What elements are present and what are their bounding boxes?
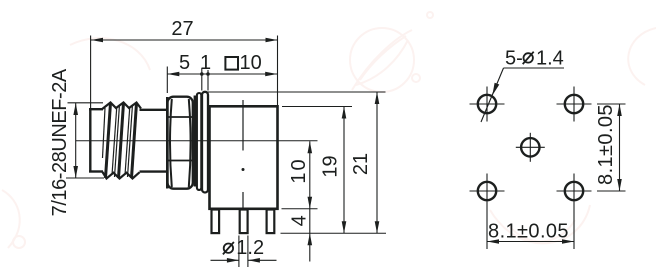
dimension 8.1 +/-0.05 horizontal [487,221,574,244]
thread OD extension line top [68,102,104,104]
dimension diameter 1.2 [211,237,277,263]
hole center [516,133,545,162]
thread crest zigzag bottom [103,172,140,179]
svg-text:8.1±0.05: 8.1±0.05 [488,221,569,243]
extension line 5 [166,67,168,94]
dimension 21 [350,92,379,233]
thread OD extension line bottom [66,177,104,179]
extension lines right 8.1 dim [597,104,626,191]
extension line 1 left [201,68,203,91]
extension line 27 left [90,36,92,109]
dimension 27 [91,18,278,42]
flange washer [202,92,208,193]
spring washer [197,93,201,190]
centerline main axis [76,140,318,142]
svg-text:7/16-28UNEF-2A: 7/16-28UNEF-2A [49,68,71,216]
svg-text:19: 19 [320,155,342,177]
pin center [240,210,248,234]
pin right [267,210,275,234]
svg-text:10: 10 [288,157,310,183]
svg-text:21: 21 [350,153,372,175]
hex nut [167,97,193,189]
barrel collar [89,108,103,172]
svg-text:8.1±0.05: 8.1±0.05 [595,104,617,185]
hole top-left [470,87,505,122]
lock washer [194,96,197,187]
svg-text:5: 5 [179,52,190,74]
extension line right edge (27 and square-10) [277,36,279,106]
svg-text:4: 4 [289,215,311,226]
hole bottom-right [557,174,592,250]
extension line 1 right [207,70,209,91]
extension lines pin diameter [239,236,248,268]
svg-text:27: 27 [171,18,193,40]
dimension 7/16-28UNEF-2A thread diameter [49,68,78,216]
thread crest zigzag top [103,103,142,109]
svg-text:1.2: 1.2 [236,237,264,259]
dimension chain 5 / 1 / square-10 [167,52,277,76]
extension line pin bottom [281,232,387,234]
plain barrel section [140,110,168,172]
svg-text:1: 1 [200,52,211,74]
extension line body bottom [282,208,318,210]
thread flank lines [103,103,137,178]
dimension 8.1 +/-0.05 vertical [595,104,622,191]
hole bottom-left [470,174,505,250]
svg-text:10: 10 [240,52,262,74]
svg-text:1.4: 1.4 [536,48,564,70]
pin left [212,210,220,234]
dimension 19 [320,107,347,234]
leader and label 5-dia1.4 [481,48,564,123]
extension line body top for 19 [282,106,352,108]
extension line flange top for 21 [204,91,386,93]
dimension 10 and 4 shared line [288,141,312,261]
body block [210,106,278,209]
hole top-right [557,87,592,122]
svg-text:5-: 5- [505,48,523,70]
vertical axis mark of pin [242,100,245,208]
